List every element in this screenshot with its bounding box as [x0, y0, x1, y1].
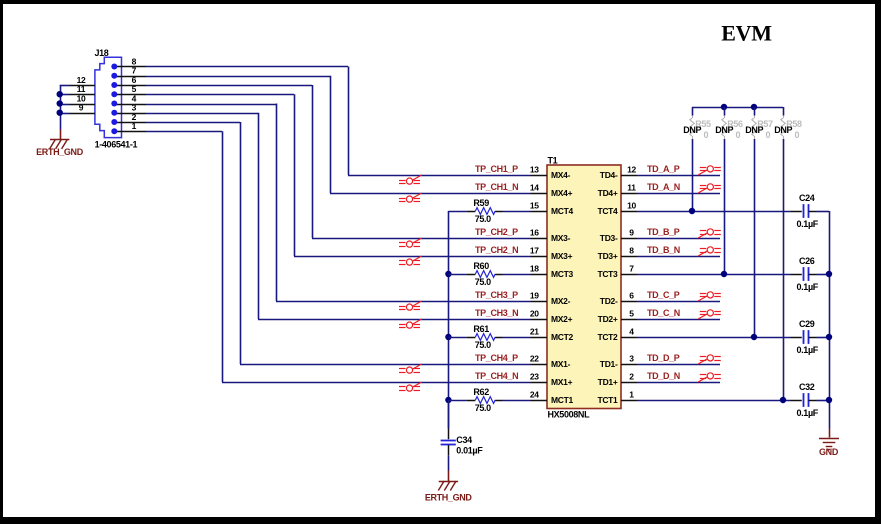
T1 pin 23 stub + number: [531, 382, 548, 384]
T1 pin 17 stub + number: [531, 256, 548, 258]
svg-text:C29: C29: [799, 319, 815, 329]
wire TCT row y=274 to cap C26: [637, 274, 791, 276]
junction dot left bus y=274: [445, 271, 451, 277]
svg-text:75.0: 75.0: [475, 277, 491, 287]
wire net TP_CH1_P horizontal: [348, 175, 531, 177]
connector J18 pin 3 dot: [111, 110, 117, 116]
wire net TP_CH4_N horizontal: [222, 382, 531, 384]
T1 pin 24 stub + number: [531, 400, 548, 402]
wire net TD_B_P horizontal: [637, 238, 720, 240]
svg-text:MX2-: MX2-: [551, 296, 571, 306]
svg-text:1: 1: [629, 389, 634, 399]
wire J18 shell pin 12 stub: [60, 85, 95, 87]
svg-text:0: 0: [736, 130, 741, 140]
wire left MCT bus vertical: [448, 211, 450, 429]
resistor R61 75.0: [448, 334, 530, 341]
svg-text:R60: R60: [473, 261, 489, 271]
svg-text:MX1+: MX1+: [551, 377, 573, 387]
connector J18 pin 1 dot: [111, 128, 117, 134]
svg-text:0.1µF: 0.1µF: [797, 282, 819, 292]
T1 pin 5 stub + number: [621, 319, 637, 321]
svg-text:TP_CH4_N: TP_CH4_N: [475, 371, 518, 381]
svg-text:R62: R62: [473, 387, 489, 397]
junction dot rail end x=783: [780, 397, 786, 403]
T1 pin 4 stub + number: [621, 337, 637, 339]
svg-text:0: 0: [766, 130, 771, 140]
test point probe on TD_B_P: [698, 229, 721, 238]
wire J18 pin 8 to row (net CH): [117, 67, 349, 176]
resistor R55 DNP (gray): [690, 116, 694, 140]
svg-text:MX2+: MX2+: [551, 314, 573, 324]
svg-text:9: 9: [629, 227, 634, 237]
svg-text:TP_CH2_P: TP_CH2_P: [475, 227, 518, 237]
power symbol ERTH_GND (bottom): [438, 481, 458, 491]
T1 pin 19 stub + number: [531, 301, 548, 303]
svg-text:20: 20: [530, 308, 539, 318]
resistor R62 75.0: [448, 397, 530, 404]
junction dot top bus x=754: [751, 104, 757, 110]
svg-text:TP_CH1_P: TP_CH1_P: [475, 164, 518, 174]
transformer T1 body: [547, 165, 621, 409]
resistor R57 DNP (gray): [752, 116, 756, 140]
T1 pin 15 stub + number: [531, 211, 548, 213]
connector J18 outline: [95, 57, 122, 137]
test point probe on TP_CH2_N: [399, 256, 422, 265]
svg-text:24: 24: [530, 389, 539, 399]
resistor R58 DNP (gray): [781, 116, 785, 140]
svg-text:DNP: DNP: [715, 125, 733, 135]
test point probe on TP_CH3_P: [399, 301, 422, 310]
junction dot J18 bus y=103.5: [57, 100, 63, 106]
svg-text:MCT2: MCT2: [551, 332, 574, 342]
svg-text:10: 10: [627, 200, 636, 210]
svg-text:TD_D_P: TD_D_P: [647, 353, 680, 363]
wire DNP rail R56 vertical: [724, 107, 726, 274]
T1 pin 16 stub + number: [531, 238, 548, 240]
connector J18 pin 2 dot: [111, 119, 117, 125]
svg-text:ERTH_GND: ERTH_GND: [36, 147, 84, 157]
svg-text:HX5008NL: HX5008NL: [548, 409, 591, 419]
svg-text:0.1µF: 0.1µF: [797, 345, 819, 355]
svg-text:0: 0: [795, 130, 800, 140]
svg-text:MCT1: MCT1: [551, 395, 574, 405]
svg-text:6: 6: [629, 290, 634, 300]
svg-text:R61: R61: [473, 324, 489, 334]
junction dot rail end x=754: [751, 334, 757, 340]
wire TCT row y=337 to cap C29: [637, 337, 791, 339]
svg-text:14: 14: [530, 182, 539, 192]
wire net TP_CH2_P horizontal: [312, 238, 531, 240]
test point probe on TP_CH4_N: [399, 382, 422, 391]
svg-text:TP_CH1_N: TP_CH1_N: [475, 182, 518, 192]
svg-text:8: 8: [132, 56, 137, 66]
svg-text:TCT4: TCT4: [597, 206, 618, 216]
svg-text:TD1-: TD1-: [600, 359, 618, 369]
wire J18 shell pin 10 stub: [60, 104, 95, 106]
svg-text:TD_C_P: TD_C_P: [647, 290, 680, 300]
connector J18 pin 7 dot: [111, 73, 117, 79]
test point probe on TP_CH4_P: [399, 364, 422, 373]
wire J18 ground bus vertical: [60, 85, 62, 139]
T1 pin 9 stub + number: [621, 238, 637, 240]
wire DNP rail R57 vertical: [754, 107, 756, 337]
T1 pin 21 stub + number: [531, 337, 548, 339]
wire right rail vertical: [829, 211, 831, 438]
svg-text:J18: J18: [95, 48, 109, 58]
T1 pin 7 stub + number: [621, 274, 637, 276]
wire net TD_D_N horizontal: [637, 382, 720, 384]
svg-text:DNP: DNP: [745, 125, 763, 135]
wire J18 pin 5 to row (net CH): [117, 94, 295, 256]
junction dot right rail y=274: [826, 271, 832, 277]
power symbol GND (earth): [819, 439, 839, 450]
svg-text:22: 22: [530, 353, 539, 363]
wire J18 pin 4 to row (net CH): [117, 104, 277, 302]
wire DNP top bus horizontal: [692, 107, 783, 109]
svg-text:15: 15: [530, 200, 539, 210]
T1 pin 3 stub + number: [621, 364, 637, 366]
power symbol ERTH_GND (top left): [50, 139, 70, 149]
svg-text:TD2+: TD2+: [598, 314, 618, 324]
junction dot right rail y=400: [826, 397, 832, 403]
svg-text:TD_B_N: TD_B_N: [647, 245, 680, 255]
svg-text:2: 2: [629, 371, 634, 381]
svg-text:R59: R59: [473, 198, 489, 208]
svg-text:3: 3: [629, 353, 634, 363]
T1 pin 22 stub + number: [531, 364, 548, 366]
svg-text:MX4-: MX4-: [551, 170, 571, 180]
wire net TD_A_P horizontal: [637, 175, 720, 177]
wire J18 pin 1 to row (net CH): [117, 131, 223, 382]
svg-text:C34: C34: [456, 435, 472, 445]
wire TCT row y=211 to cap C24: [637, 211, 791, 213]
svg-text:23: 23: [530, 371, 539, 381]
test point probe on TD_C_P: [698, 292, 721, 301]
svg-text:MCT4: MCT4: [551, 206, 574, 216]
svg-text:C26: C26: [799, 256, 815, 266]
svg-text:19: 19: [530, 290, 539, 300]
wire net TP_CH4_P horizontal: [240, 364, 531, 366]
svg-text:T1: T1: [548, 155, 558, 165]
svg-text:5: 5: [629, 308, 634, 318]
svg-text:GND: GND: [819, 447, 839, 457]
svg-text:TP_CH3_P: TP_CH3_P: [475, 290, 518, 300]
svg-text:16: 16: [530, 227, 539, 237]
svg-text:TCT2: TCT2: [597, 332, 618, 342]
test point probe on TP_CH2_P: [399, 238, 422, 247]
T1 pin 10 stub + number: [621, 211, 637, 213]
svg-text:MX4+: MX4+: [551, 188, 573, 198]
svg-text:TD_B_P: TD_B_P: [647, 227, 680, 237]
test point probe on TD_B_N: [698, 247, 721, 256]
T1 pin 18 stub + number: [531, 274, 548, 276]
svg-text:EVM: EVM: [721, 21, 772, 46]
svg-text:TD4-: TD4-: [600, 170, 618, 180]
svg-text:MX1-: MX1-: [551, 359, 571, 369]
wire net TD_C_N horizontal: [637, 319, 720, 321]
test point probe on TD_A_N: [698, 184, 721, 193]
junction dot J18 bus y=94.2: [57, 91, 63, 97]
wire net TD_B_N horizontal: [637, 256, 720, 258]
svg-text:TD_A_N: TD_A_N: [647, 182, 680, 192]
junction dot J18 bus y=112.7: [57, 110, 63, 116]
junction dot left bus y=337: [445, 334, 451, 340]
svg-text:11: 11: [627, 182, 636, 192]
svg-text:TD4+: TD4+: [598, 188, 618, 198]
test point probe on TD_D_N: [698, 373, 721, 382]
svg-text:13: 13: [530, 164, 539, 174]
svg-text:0.01µF: 0.01µF: [456, 445, 483, 455]
wire J18 pin 6 to row (net CH): [117, 85, 313, 238]
test point probe on TD_C_N: [698, 310, 721, 319]
T1 pin 13 stub + number: [531, 175, 548, 177]
capacitor C26 0.1uF: [791, 267, 830, 281]
resistor R60 75.0: [448, 271, 530, 278]
test point probe on TP_CH1_P: [399, 175, 422, 184]
resistor R56 DNP (gray): [722, 116, 726, 140]
svg-text:MX3+: MX3+: [551, 251, 573, 261]
wire J18 pin 3 to row (net CH): [117, 113, 259, 319]
wire net TP_CH2_N horizontal: [294, 256, 531, 258]
svg-text:MX3-: MX3-: [551, 233, 571, 243]
T1 pin 6 stub + number: [621, 301, 637, 303]
wire J18 pin 7 to row (net CH): [117, 76, 331, 193]
T1 pin 1 stub + number: [621, 400, 637, 402]
svg-text:MCT3: MCT3: [551, 269, 574, 279]
svg-text:TD3+: TD3+: [598, 251, 618, 261]
svg-text:TD2-: TD2-: [600, 296, 618, 306]
junction dot rail end x=724: [721, 271, 727, 277]
T1 pin 12 stub + number: [621, 175, 637, 177]
wire TCT row y=400 to cap C32: [637, 400, 791, 402]
T1 pin 11 stub + number: [621, 193, 637, 195]
T1 pin 8 stub + number: [621, 256, 637, 258]
capacitor C24 0.1uF: [791, 204, 830, 218]
svg-text:TCT1: TCT1: [597, 395, 618, 405]
svg-text:DNP: DNP: [774, 125, 792, 135]
wire net TP_CH3_P horizontal: [276, 301, 531, 303]
connector J18 pin 6 dot: [111, 82, 117, 88]
svg-text:7: 7: [629, 263, 634, 273]
wire net TD_C_P horizontal: [637, 301, 720, 303]
svg-text:0.1µF: 0.1µF: [797, 408, 819, 418]
svg-text:75.0: 75.0: [475, 340, 491, 350]
test point probe on TD_A_P: [698, 166, 721, 175]
svg-text:TD_A_P: TD_A_P: [647, 164, 680, 174]
capacitor C29 0.1uF: [791, 330, 830, 344]
svg-text:9: 9: [79, 103, 84, 113]
wire net TP_CH1_N horizontal: [330, 193, 531, 195]
svg-text:TP_CH2_N: TP_CH2_N: [475, 245, 518, 255]
junction dot left bus y=400: [445, 397, 451, 403]
svg-text:TD3-: TD3-: [600, 233, 618, 243]
svg-text:TD1+: TD1+: [598, 377, 618, 387]
connector J18 pin 8 dot: [111, 64, 117, 70]
test point probe on TP_CH3_N: [399, 319, 422, 328]
svg-text:DNP: DNP: [683, 125, 701, 135]
svg-text:21: 21: [530, 326, 539, 336]
svg-text:TD_C_N: TD_C_N: [647, 308, 680, 318]
junction dot right rail y=337: [826, 334, 832, 340]
T1 pin 20 stub + number: [531, 319, 548, 321]
svg-text:17: 17: [530, 245, 539, 255]
svg-text:8: 8: [629, 245, 634, 255]
svg-text:75.0: 75.0: [475, 214, 491, 224]
wire net TP_CH3_N horizontal: [258, 319, 531, 321]
capacitor C32 0.1uF: [791, 393, 830, 407]
wire J18 pin 2 to row (net CH): [117, 122, 241, 364]
junction dot rail end x=692: [689, 208, 695, 214]
test point probe on TD_D_P: [698, 355, 721, 364]
T1 pin 14 stub + number: [531, 193, 548, 195]
svg-text:TP_CH4_P: TP_CH4_P: [475, 353, 518, 363]
svg-text:18: 18: [530, 263, 539, 273]
svg-text:TD_D_N: TD_D_N: [647, 371, 680, 381]
wire J18 shell pin 11 stub: [60, 94, 95, 96]
svg-text:TP_CH3_N: TP_CH3_N: [475, 308, 518, 318]
resistor R59 75.0: [448, 208, 530, 215]
svg-text:TCT3: TCT3: [597, 269, 618, 279]
wire net TD_D_P horizontal: [637, 364, 720, 366]
svg-text:0.1µF: 0.1µF: [797, 219, 819, 229]
wire net TD_A_N horizontal: [637, 193, 720, 195]
svg-text:4: 4: [629, 326, 634, 336]
junction dot top bus x=724: [721, 104, 727, 110]
wire DNP rail R55 vertical: [692, 107, 694, 211]
svg-text:12: 12: [627, 164, 636, 174]
T1 pin 2 stub + number: [621, 382, 637, 384]
svg-text:0: 0: [704, 130, 709, 140]
svg-text:C24: C24: [799, 193, 815, 203]
svg-text:1-406541-1: 1-406541-1: [95, 140, 138, 150]
wire DNP rail R58 vertical: [783, 107, 785, 400]
connector J18 pin 4 dot: [111, 101, 117, 107]
svg-text:75.0: 75.0: [475, 403, 491, 413]
svg-text:C32: C32: [799, 382, 815, 392]
wire J18 shell pin 9 stub: [60, 113, 95, 115]
connector J18 pin 5 dot: [111, 91, 117, 97]
test point probe on TP_CH1_N: [399, 193, 422, 202]
svg-text:ERTH_GND: ERTH_GND: [425, 492, 473, 502]
capacitor C34 0.01uF: [441, 400, 456, 481]
